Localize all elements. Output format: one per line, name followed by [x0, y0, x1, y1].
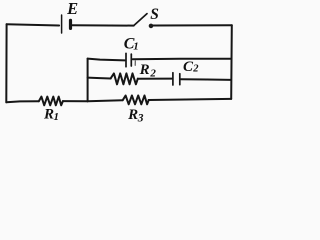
svg-text:1: 1: [133, 40, 139, 52]
wire C1 row left: [88, 59, 125, 61]
svg-text:2: 2: [149, 67, 156, 79]
wire middle vertical branch: [87, 59, 89, 102]
svg-text:S: S: [150, 6, 159, 23]
switch S: [134, 14, 154, 29]
svg-text:1: 1: [54, 111, 60, 123]
resistor R3: [123, 96, 149, 105]
resistor R1: [39, 97, 63, 106]
wire R2 row left: [88, 77, 111, 80]
resistor R2: [111, 73, 138, 84]
wire R1 to junction: [63, 100, 88, 102]
wire C2 to right side: [181, 78, 231, 81]
tick artifact below C1 wire: [134, 61, 136, 66]
capacitor C2: [173, 73, 180, 85]
capacitor C1: [126, 53, 131, 67]
svg-text:R: R: [127, 107, 138, 123]
svg-text:R: R: [139, 62, 150, 78]
wire bottom-left segment: [6, 101, 39, 102]
battery E: [62, 15, 71, 33]
wire right side: [230, 25, 233, 99]
svg-text:3: 3: [137, 112, 144, 124]
wire switch to top-right: [153, 24, 232, 26]
svg-text:R: R: [43, 107, 54, 123]
svg-text:E: E: [66, 0, 78, 18]
wire C1 row right: [133, 58, 231, 60]
svg-text:2: 2: [192, 64, 199, 75]
wire battery to switch: [72, 24, 133, 26]
wire junction to R3: [88, 100, 123, 101]
wire R2 to C2: [138, 78, 172, 80]
wire top-left segment: [7, 24, 60, 25]
wire left side: [5, 24, 7, 102]
wire bottom-right segment: [149, 99, 232, 100]
